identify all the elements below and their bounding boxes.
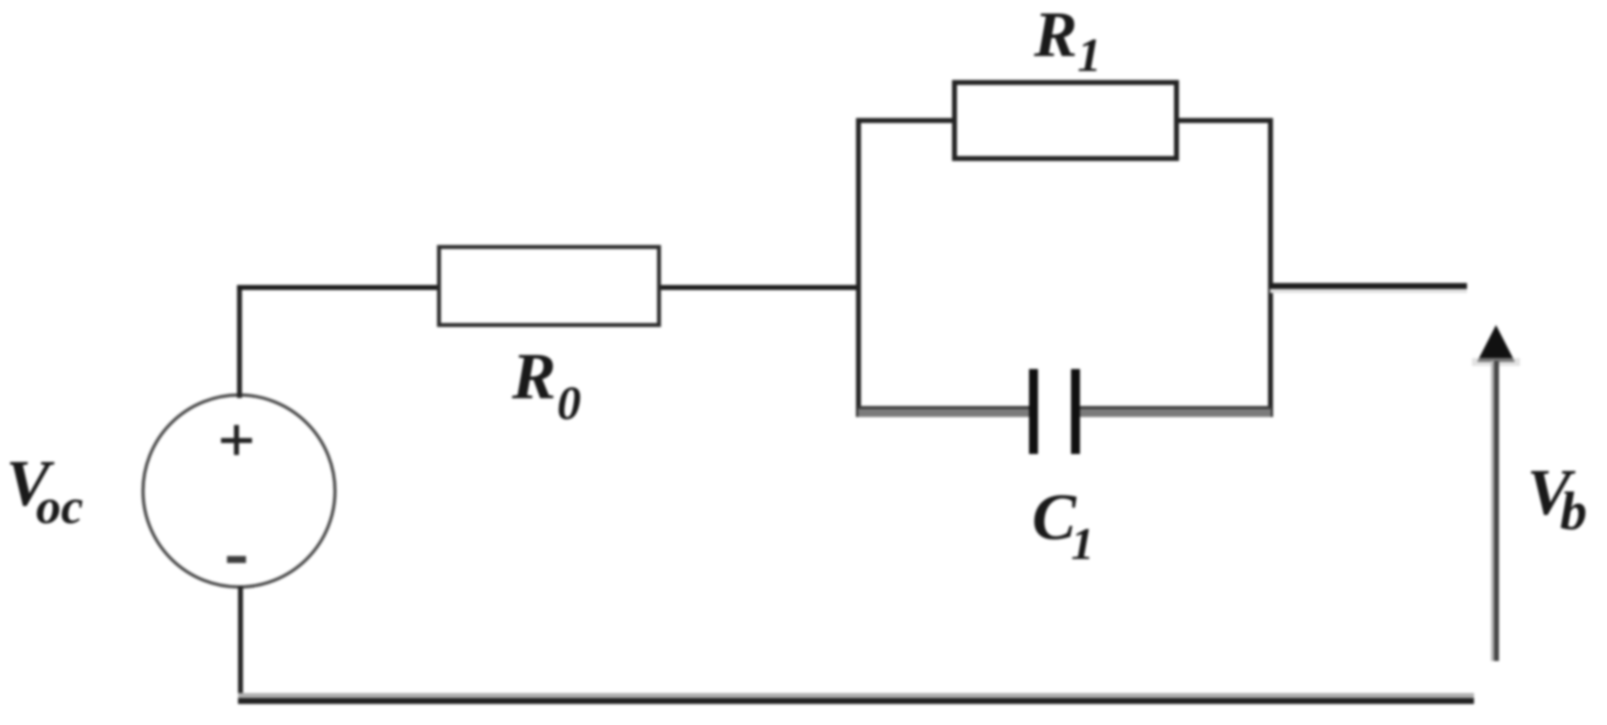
- minus sign: [227, 556, 246, 563]
- wire: top stub right of R1: [1177, 118, 1273, 123]
- arrowhead of Vb arrow: [1470, 320, 1522, 370]
- wire: bottom long horizontal: [238, 693, 1474, 698]
- wire: output horizontal right: [1270, 283, 1467, 289]
- label Voc: [6, 451, 83, 531]
- wire: source top vertical: [237, 286, 242, 398]
- wire: source bottom vertical: [238, 586, 243, 700]
- resistor R1 box: [952, 80, 1179, 161]
- label R1: [1034, 3, 1101, 80]
- wire: top stub left of R1: [856, 118, 954, 123]
- label Vb: [1527, 460, 1587, 538]
- wire: RC loop bottom left segment: [858, 406, 1030, 409]
- arrow line Vb: [1491, 361, 1499, 661]
- plus sign: [221, 438, 252, 443]
- wire: main horizontal between R0 and RC block: [661, 285, 858, 290]
- capacitor C1 right plate: [1071, 369, 1080, 454]
- wire: RC loop right vertical: [1268, 118, 1273, 417]
- label R0: [512, 344, 581, 428]
- wire: RC loop bottom right segment: [1080, 406, 1271, 409]
- wire: RC loop left vertical: [856, 118, 861, 417]
- label C1: [1032, 485, 1094, 567]
- capacitor C1 left plate: [1029, 369, 1038, 454]
- voltage source Voc circle: [138, 390, 342, 594]
- wire: main horizontal left of R0: [237, 285, 439, 290]
- resistor R0 box: [437, 245, 661, 327]
